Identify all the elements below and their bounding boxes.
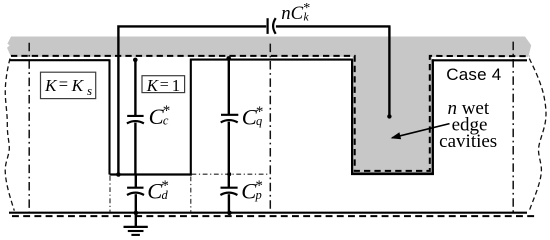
svg-text:=: =	[160, 77, 169, 94]
svg-text:cavities: cavities	[439, 131, 497, 152]
svg-text:=: =	[59, 75, 68, 94]
svg-text:k: k	[304, 12, 310, 24]
svg-text:1: 1	[172, 76, 180, 95]
svg-text:d: d	[162, 188, 169, 202]
svg-text:K: K	[44, 76, 58, 95]
svg-text:K: K	[146, 76, 159, 95]
svg-text:c: c	[163, 113, 169, 127]
svg-text:Case 4: Case 4	[446, 65, 501, 84]
svg-text:K: K	[71, 76, 85, 95]
svg-text:s: s	[87, 83, 92, 98]
svg-text:p: p	[255, 188, 262, 202]
svg-text:nC: nC	[281, 3, 303, 24]
svg-text:q: q	[256, 114, 262, 128]
